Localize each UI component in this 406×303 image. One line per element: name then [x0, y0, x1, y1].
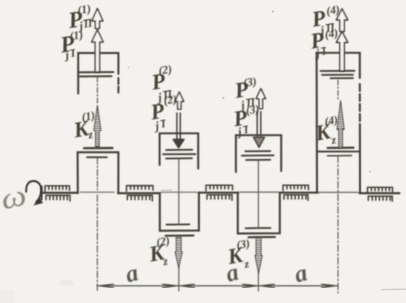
- svg-text:(2): (2): [155, 235, 170, 249]
- svg-text:(2): (2): [163, 93, 178, 107]
- svg-text:(3): (3): [242, 76, 257, 90]
- svg-text:(1): (1): [81, 110, 96, 124]
- svg-text:(4): (4): [326, 4, 341, 18]
- svg-text:(4): (4): [324, 114, 339, 128]
- svg-text:(2): (2): [158, 64, 173, 78]
- svg-text:(3): (3): [245, 103, 260, 117]
- svg-text:(1): (1): [77, 3, 92, 17]
- svg-text:(1): (1): [69, 29, 84, 43]
- svg-text:(4): (4): [324, 27, 339, 41]
- svg-text:(3): (3): [236, 238, 251, 252]
